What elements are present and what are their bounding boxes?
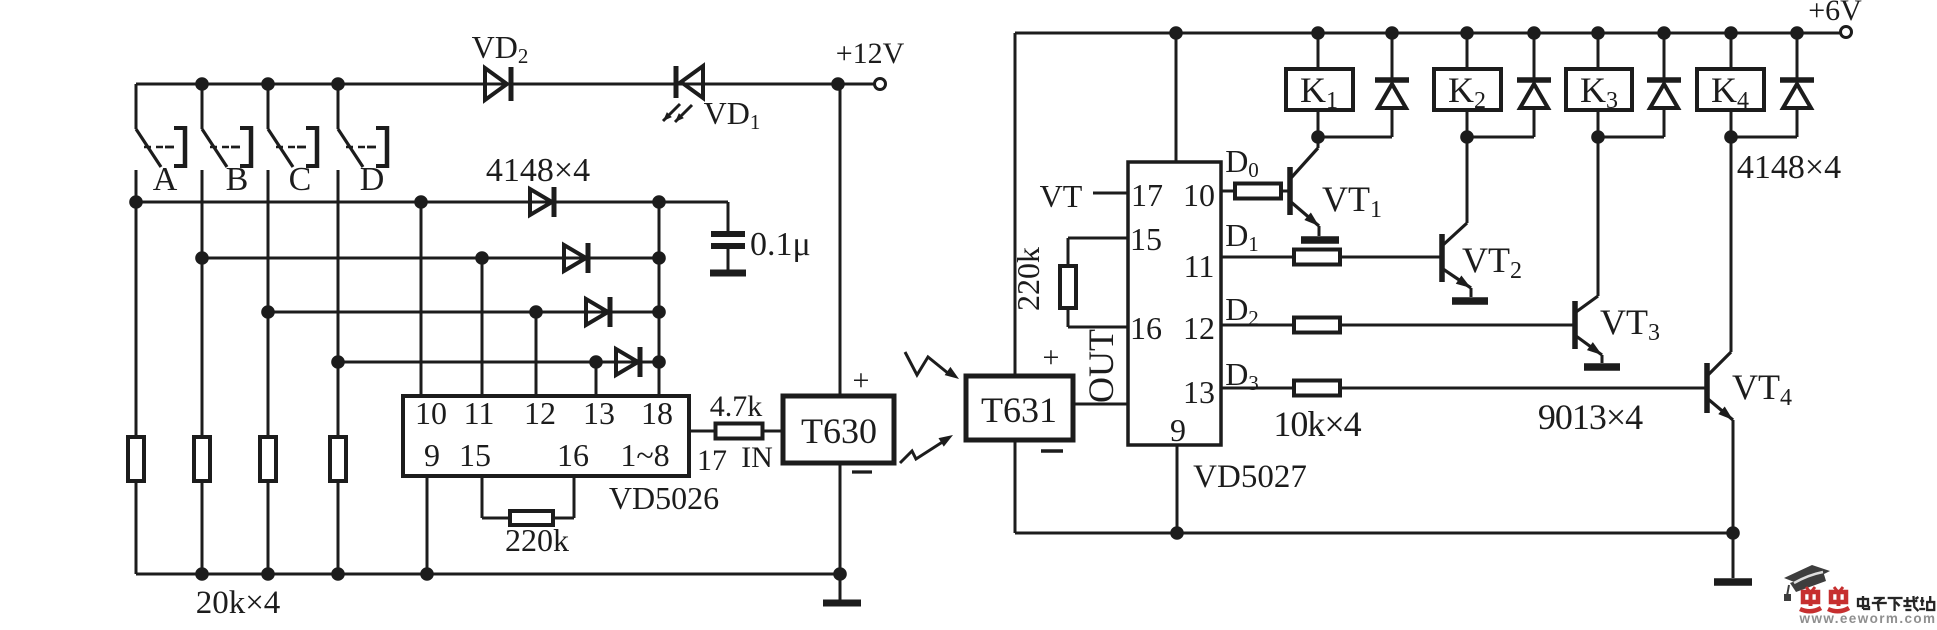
- svg-text:OUT: OUT: [1081, 329, 1121, 403]
- svg-text:T630: T630: [801, 411, 877, 451]
- svg-text:16: 16: [1130, 310, 1162, 346]
- svg-text:B: B: [226, 161, 249, 198]
- svg-text:20k×4: 20k×4: [196, 585, 281, 621]
- svg-text:9: 9: [1170, 412, 1186, 448]
- svg-text:15: 15: [459, 437, 491, 473]
- svg-text:16: 16: [557, 437, 589, 473]
- svg-text:12: 12: [524, 395, 556, 431]
- svg-text:12: 12: [1183, 310, 1215, 346]
- svg-text:+6V: +6V: [1808, 0, 1862, 27]
- svg-text:VD5026: VD5026: [609, 480, 719, 516]
- svg-text:10: 10: [415, 395, 447, 431]
- svg-text:220k: 220k: [1010, 247, 1046, 311]
- svg-text:T631: T631: [981, 390, 1057, 430]
- svg-text:10: 10: [1183, 177, 1215, 213]
- svg-text:+: +: [1043, 341, 1060, 374]
- svg-text:220k: 220k: [505, 522, 569, 558]
- svg-text:1~8: 1~8: [620, 437, 669, 473]
- svg-text:A: A: [153, 161, 178, 198]
- svg-text:17: 17: [697, 444, 727, 477]
- svg-text:9013×4: 9013×4: [1538, 397, 1643, 437]
- svg-text:www.eeworm.com: www.eeworm.com: [1799, 611, 1937, 625]
- svg-text:4148×4: 4148×4: [486, 152, 590, 189]
- svg-text:4148×4: 4148×4: [1737, 149, 1841, 186]
- svg-text:13: 13: [1183, 374, 1215, 410]
- svg-text:13: 13: [583, 395, 615, 431]
- svg-text:10k×4: 10k×4: [1273, 404, 1361, 444]
- svg-text:0.1μ: 0.1μ: [750, 226, 811, 263]
- svg-text:15: 15: [1130, 221, 1162, 257]
- svg-text:18: 18: [641, 395, 673, 431]
- svg-text:D: D: [360, 161, 385, 198]
- svg-text:4.7k: 4.7k: [710, 390, 763, 423]
- svg-text:C: C: [289, 161, 312, 198]
- svg-text:9: 9: [424, 437, 440, 473]
- svg-text:IN: IN: [741, 441, 773, 474]
- svg-text:17: 17: [1131, 177, 1163, 213]
- svg-text:VD5027: VD5027: [1193, 459, 1307, 495]
- svg-text:+: +: [853, 364, 870, 397]
- svg-text:11: 11: [464, 395, 495, 431]
- svg-text:11: 11: [1184, 248, 1215, 284]
- svg-text:VT: VT: [1040, 178, 1083, 214]
- svg-text:+12V: +12V: [836, 37, 905, 70]
